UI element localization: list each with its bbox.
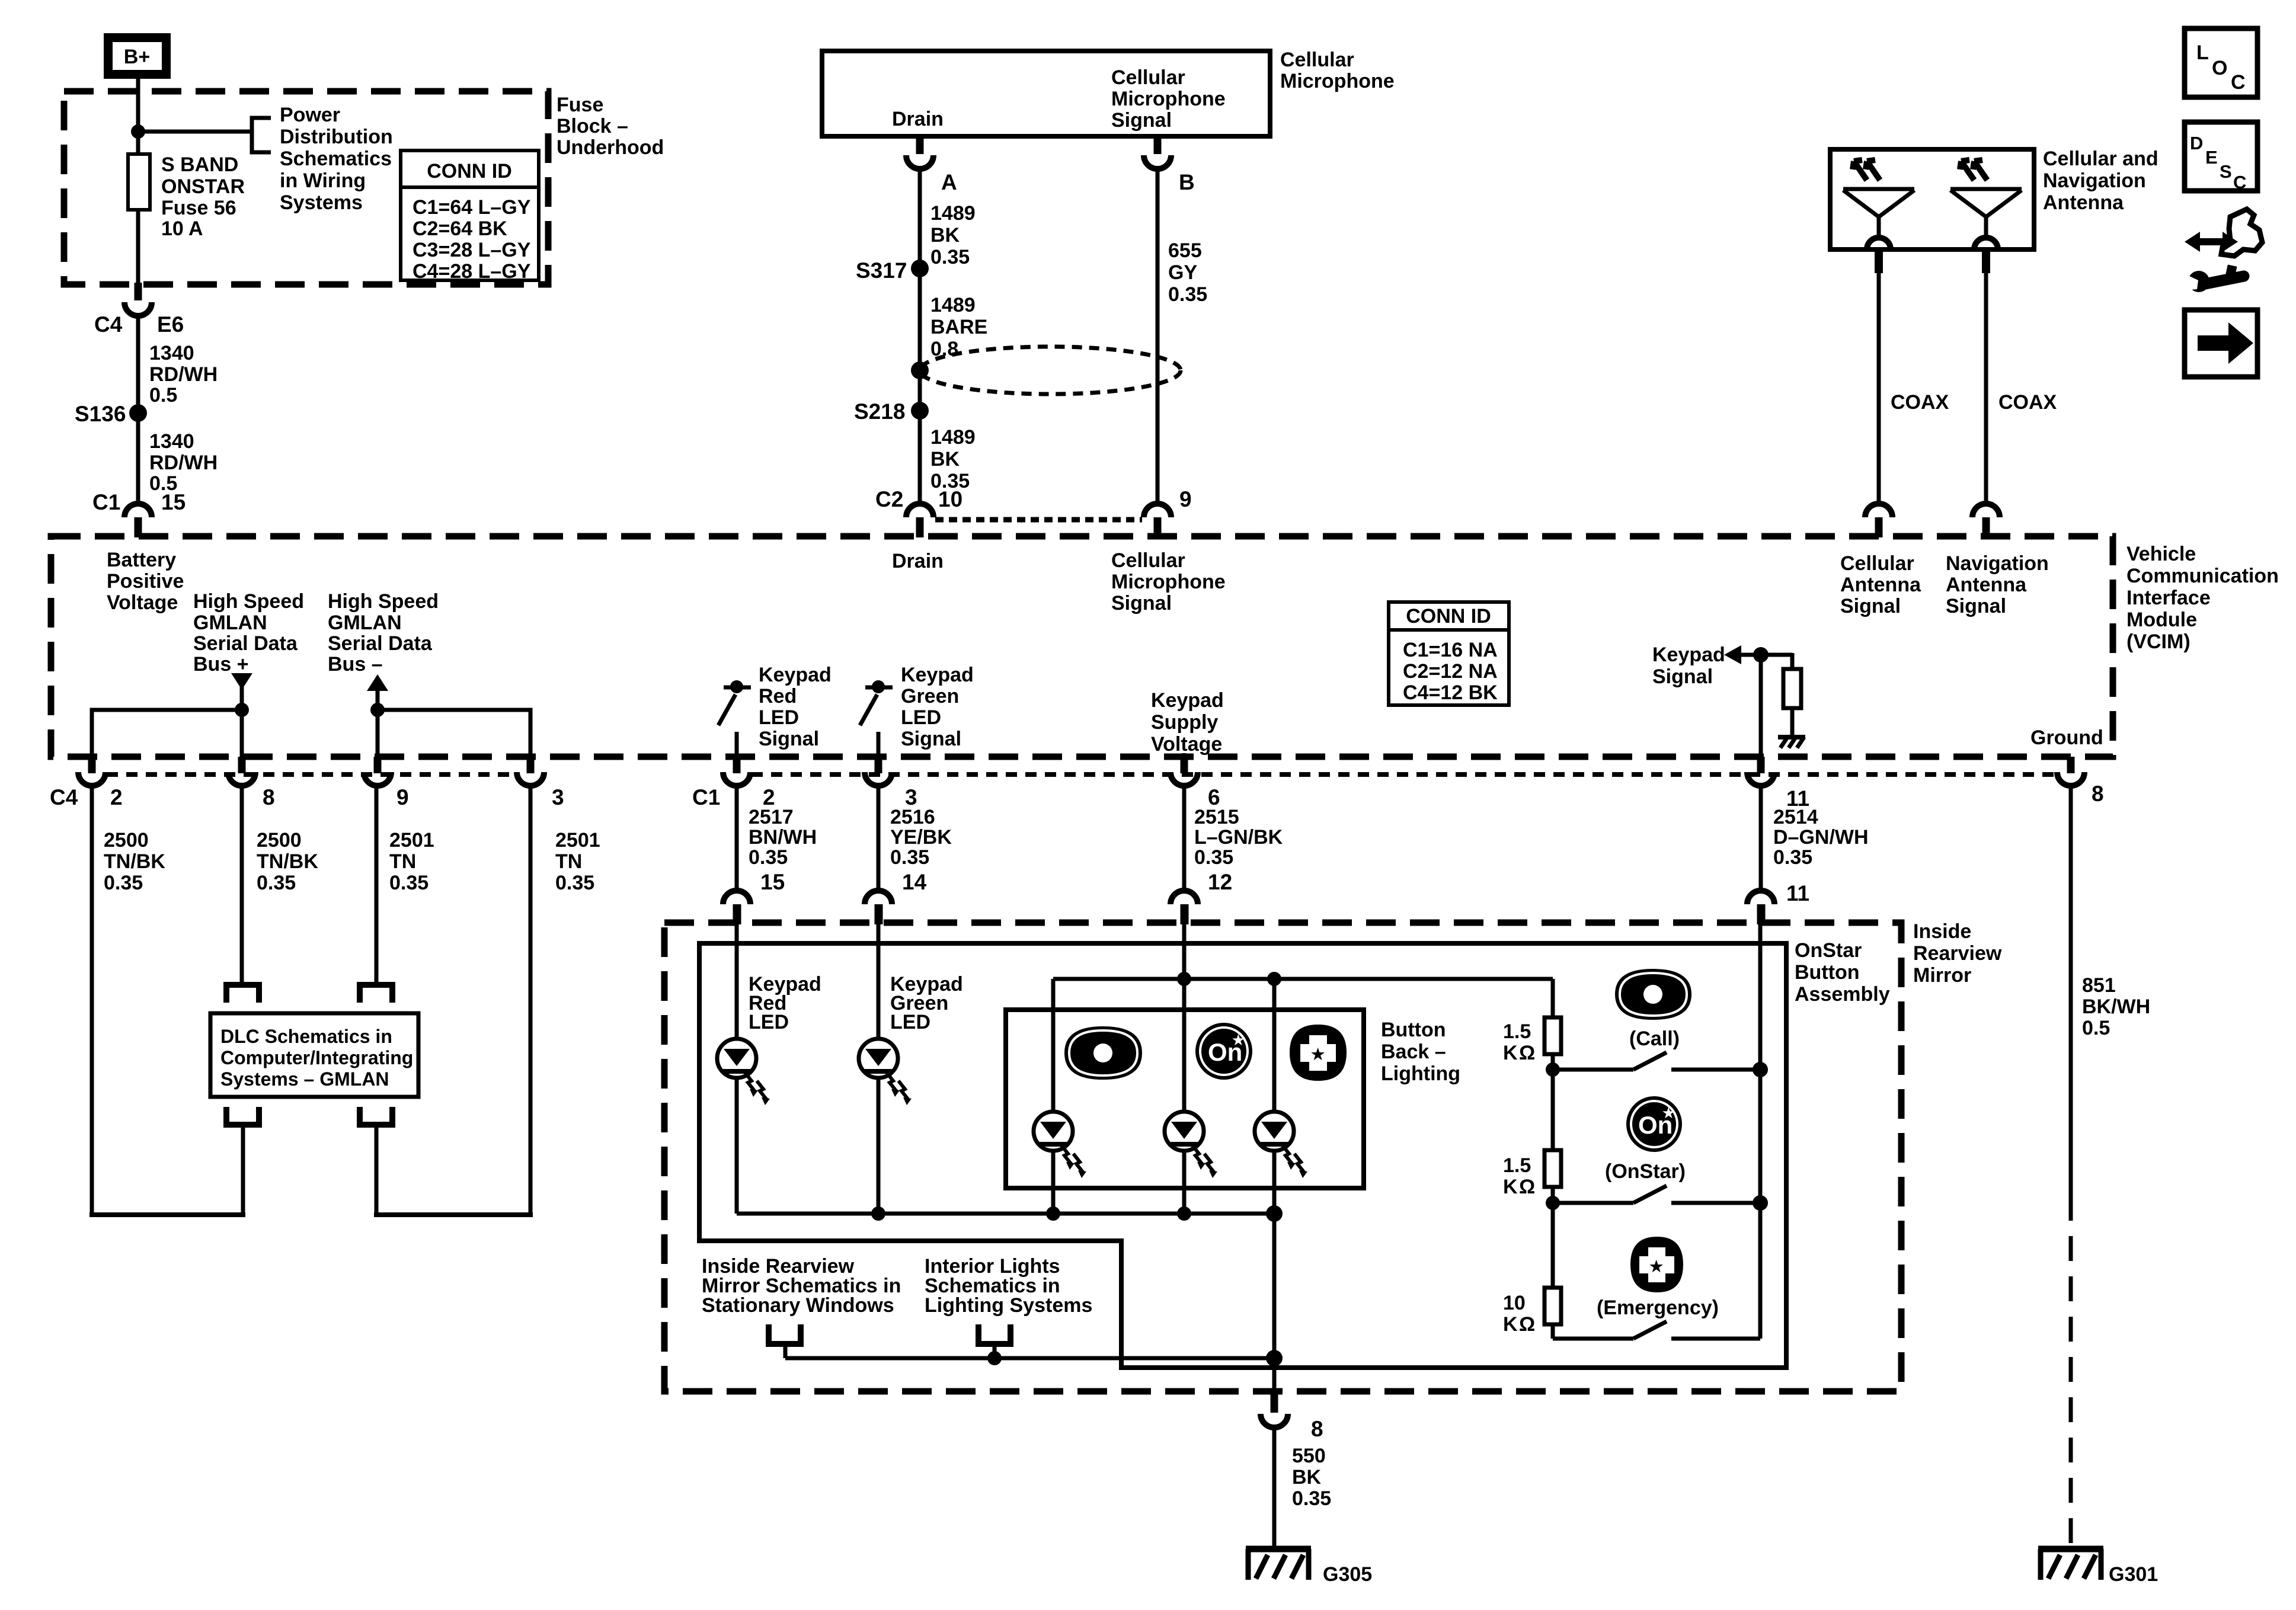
svg-text:Voltage: Voltage — [107, 591, 178, 614]
svg-text:Signal: Signal — [1946, 595, 2006, 617]
splice S218 — [911, 402, 929, 420]
svg-text:E: E — [2205, 147, 2218, 168]
svg-text:LED: LED — [890, 1011, 930, 1033]
svg-text:1.5: 1.5 — [1503, 1020, 1531, 1043]
svg-text:Serial Data: Serial Data — [193, 632, 298, 655]
svg-text:Signal: Signal — [1840, 595, 1901, 617]
svg-text:1340: 1340 — [149, 342, 194, 364]
label Inside Rearview Mirror — [1913, 920, 2002, 987]
wire resistor3 to switch3 — [1551, 1324, 1555, 1339]
wire backlight 1 — [1051, 979, 1056, 1112]
connector C1 pin 15 — [92, 490, 186, 537]
svg-text:GMLAN: GMLAN — [193, 612, 267, 634]
reference tab above DLC right — [360, 985, 392, 1003]
svg-text:0.5: 0.5 — [149, 384, 177, 406]
label S BAND ONSTAR Fuse 56 10A — [161, 153, 245, 240]
fuse F56 — [128, 154, 150, 210]
svg-text:0.35: 0.35 — [389, 872, 428, 894]
label 2516 YE/BK 0.35 — [890, 806, 952, 869]
VCIM dashed box — [51, 536, 2113, 757]
svg-text:C4=12 BK: C4=12 BK — [1403, 681, 1498, 704]
label 2501 TN 0.35 — [555, 829, 600, 894]
label Fuse Block - Underhood — [557, 94, 664, 159]
wire red LED to rail — [735, 1078, 739, 1214]
backlight supply rail — [1053, 977, 1553, 981]
svg-text:Antenna: Antenna — [2043, 191, 2124, 214]
svg-text:Supply: Supply — [1151, 711, 1218, 734]
pin cellular antenna — [1875, 249, 1883, 273]
label 2500 TN/BK 0.35 — [257, 829, 318, 894]
wire 2514 D-GN/WH — [1759, 786, 1763, 888]
svg-text:Inside: Inside — [1913, 920, 1971, 943]
label 1489 BK 0.35 — [930, 426, 976, 492]
svg-text:★: ★ — [1232, 1032, 1245, 1048]
wire resistor2 to node2 — [1551, 1187, 1555, 1288]
label Keypad Green LED — [890, 973, 963, 1033]
label 1489 BARE 0.8 — [930, 294, 987, 360]
svg-text:RD/WH: RD/WH — [149, 452, 218, 474]
svg-text:Bus +: Bus + — [193, 653, 249, 676]
svg-text:Signal: Signal — [901, 728, 961, 750]
label 2500 TN/BK 0.35 — [104, 829, 165, 894]
svg-text:0.35: 0.35 — [930, 246, 970, 268]
label Keypad Red LED — [749, 973, 821, 1033]
label DLC Schematics — [220, 1026, 413, 1090]
wire 2501 TN pin3 — [529, 786, 533, 1215]
power distribution reference tab — [252, 118, 271, 152]
arrow keypad signal (left) — [1724, 645, 1741, 664]
B+ battery feed symbol — [104, 33, 171, 79]
wire DLC left return — [241, 1126, 245, 1215]
DLC schematics box — [210, 1013, 418, 1097]
icon wrench — [2185, 265, 2244, 292]
label Button Back - Lighting — [1381, 1019, 1460, 1085]
connector C1 pin 6 — [1171, 757, 1220, 809]
svg-text:LED: LED — [901, 706, 941, 729]
svg-text:Ω: Ω — [1519, 1176, 1535, 1198]
fuse block underhood dashed box — [64, 91, 548, 284]
connector C4 pin 3 — [517, 757, 564, 809]
svg-text:E6: E6 — [157, 312, 184, 337]
svg-text:GY: GY — [1168, 261, 1197, 284]
svg-text:(VCIM): (VCIM) — [2126, 630, 2191, 653]
button back lighting box — [1006, 1010, 1364, 1188]
icon LOC box — [2185, 28, 2257, 97]
svg-text:YE/BK: YE/BK — [890, 826, 952, 849]
svg-text:1489: 1489 — [930, 426, 976, 449]
reference tab below DLC left — [226, 1107, 259, 1125]
label Cellular Antenna Signal — [1840, 552, 1921, 617]
label Navigation Antenna Signal — [1946, 552, 2049, 617]
svg-text:2517: 2517 — [749, 806, 794, 828]
svg-text:Keypad: Keypad — [1652, 644, 1725, 666]
svg-text:DLC Schematics in: DLC Schematics in — [220, 1026, 392, 1047]
svg-text:2515: 2515 — [1194, 806, 1239, 828]
svg-text:Communication: Communication — [2126, 565, 2279, 587]
resistor 1.5K call — [1544, 1017, 1561, 1054]
svg-text:0.35: 0.35 — [1773, 846, 1812, 869]
svg-text:TN/BK: TN/BK — [104, 850, 165, 873]
svg-text:0.35: 0.35 — [1168, 283, 1207, 306]
svg-text:COAX: COAX — [1998, 391, 2057, 414]
cellular and navigation antenna box — [1830, 149, 2034, 249]
svg-text:9: 9 — [1179, 487, 1192, 511]
wire bottom link left — [89, 1212, 245, 1217]
svg-text:S317: S317 — [856, 258, 907, 283]
dotted connector line C4 — [107, 772, 516, 777]
svg-text:C: C — [2233, 172, 2246, 193]
svg-text:TN: TN — [555, 850, 582, 873]
wire keypad signal horizontal — [1740, 653, 1792, 657]
node backlight2 rail — [1177, 1206, 1191, 1221]
svg-text:Keypad: Keypad — [759, 664, 832, 686]
svg-text:Bus –: Bus – — [328, 653, 383, 676]
icon DESC box — [2185, 122, 2257, 193]
svg-text:11: 11 — [1786, 881, 1809, 905]
wire 2516 YE/BK — [877, 786, 881, 888]
wire keypad supply into assembly — [1182, 922, 1187, 1112]
svg-text:1.5: 1.5 — [1503, 1154, 1531, 1177]
inside rearview mirror dashed box — [664, 923, 1901, 1391]
svg-text:Underhood: Underhood — [557, 136, 664, 159]
svg-text:14: 14 — [902, 870, 927, 894]
svg-text:Systems – GMLAN: Systems – GMLAN — [220, 1068, 389, 1090]
node supply to rail — [1177, 972, 1191, 986]
svg-text:K: K — [1503, 1313, 1518, 1336]
svg-text:Cellular: Cellular — [1111, 549, 1185, 572]
switch keypad red LED signal driver — [718, 680, 751, 757]
wire 1489 BK drain upper — [918, 169, 922, 264]
svg-text:C4=28 L–GY: C4=28 L–GY — [412, 260, 531, 283]
svg-text:Cellular: Cellular — [1840, 552, 1914, 575]
svg-text:BK: BK — [930, 448, 960, 470]
svg-text:★: ★ — [1311, 1045, 1325, 1063]
node switch onstar — [1546, 1196, 1560, 1210]
svg-text:COAX: COAX — [1891, 391, 1949, 414]
svg-text:B: B — [1179, 170, 1195, 194]
svg-text:Signal: Signal — [759, 728, 819, 750]
svg-text:Lighting Systems: Lighting Systems — [925, 1294, 1092, 1317]
svg-text:C1=16 NA: C1=16 NA — [1403, 639, 1498, 661]
svg-text:Fuse: Fuse — [557, 94, 603, 116]
node shield junction — [911, 361, 929, 379]
svg-text:L: L — [2196, 41, 2209, 64]
svg-text:0.5: 0.5 — [2082, 1017, 2110, 1039]
svg-text:in Wiring: in Wiring — [280, 169, 366, 192]
svg-text:Vehicle: Vehicle — [2126, 543, 2196, 565]
svg-text:Block –: Block – — [557, 115, 628, 137]
label Battery Positive Voltage — [107, 549, 184, 614]
svg-text:BK: BK — [930, 224, 960, 247]
splice S317 — [911, 260, 929, 277]
label 2515 L-GN/BK 0.35 — [1194, 806, 1283, 869]
LED backlight 2 — [1165, 1112, 1217, 1178]
svg-text:LED: LED — [749, 1011, 789, 1033]
svg-text:Keypad: Keypad — [1151, 689, 1224, 712]
connector mirror pin 15 — [723, 870, 785, 924]
icon onstar backlight — [1195, 1023, 1252, 1080]
wire 2515 L-GN/BK — [1182, 786, 1187, 888]
connector C1 pin 8 ground — [2057, 757, 2104, 806]
svg-text:2500: 2500 — [257, 829, 302, 852]
wire COAX cellular — [1877, 273, 1881, 504]
svg-text:A: A — [941, 170, 957, 194]
svg-text:S136: S136 — [75, 402, 126, 426]
node backlight3 rail — [1266, 1205, 1283, 1222]
node backlight1 rail — [1046, 1206, 1060, 1221]
svg-text:2500: 2500 — [104, 829, 149, 852]
label Keypad Red LED Signal — [759, 664, 832, 750]
svg-text:OnStar: OnStar — [1795, 939, 1862, 962]
svg-text:Signal: Signal — [1111, 592, 1172, 614]
pin navigation antenna — [1982, 249, 1990, 273]
svg-text:Positive: Positive — [107, 570, 184, 593]
svg-text:Computer/Integrating: Computer/Integrating — [220, 1047, 413, 1068]
svg-text:BARE: BARE — [930, 316, 987, 338]
label 550 BK 0.35 — [1292, 1445, 1331, 1510]
svg-text:Keypad: Keypad — [901, 664, 974, 686]
svg-text:655: 655 — [1168, 239, 1202, 262]
arrow GMLAN bus + (down) — [231, 673, 252, 690]
wire rail to resistor chain — [1551, 979, 1555, 1017]
svg-text:Drain: Drain — [892, 108, 944, 130]
svg-text:2501: 2501 — [389, 829, 434, 852]
svg-text:1489: 1489 — [930, 294, 976, 316]
connector C2 pin 10 — [875, 487, 962, 537]
connector mirror pin 12 — [1171, 870, 1232, 924]
label 655 GY 0.35 — [1168, 239, 1207, 306]
svg-text:Mirror: Mirror — [1913, 964, 1971, 987]
wire DLC right return — [375, 1126, 379, 1215]
wire 1489 BK drain lower — [918, 411, 922, 504]
svg-text:RD/WH: RD/WH — [149, 363, 218, 386]
reference tab above DLC left — [226, 985, 259, 1003]
svg-text:BK/WH: BK/WH — [2082, 996, 2150, 1018]
node interior lights junction — [987, 1351, 1002, 1365]
svg-text:C1=64 L–GY: C1=64 L–GY — [412, 196, 531, 219]
svg-text:B+: B+ — [124, 46, 150, 68]
svg-text:2516: 2516 — [890, 806, 935, 828]
svg-text:3: 3 — [552, 785, 564, 809]
wire bus+ stem — [240, 686, 244, 757]
wire backlight 3 — [1272, 979, 1277, 1112]
svg-text:Serial Data: Serial Data — [328, 632, 433, 655]
antenna navigation symbol — [1950, 160, 2022, 249]
wire tab2 to combiner — [993, 1344, 997, 1358]
svg-text:15: 15 — [760, 870, 785, 894]
label High Speed GMLAN Serial Data Bus - — [328, 590, 439, 676]
svg-text:G301: G301 — [2109, 1563, 2158, 1586]
switch keypad green LED signal driver — [860, 680, 893, 757]
label Cellular Microphone Signal below VCIM edge — [1111, 549, 1226, 614]
svg-text:550: 550 — [1292, 1445, 1326, 1467]
svg-text:Drain: Drain — [892, 550, 944, 572]
connector C4 pin 9 — [364, 757, 409, 809]
svg-text:Antenna: Antenna — [1840, 574, 1921, 596]
svg-text:Power: Power — [280, 104, 340, 126]
reference tab interior lights schematics — [978, 1324, 1011, 1344]
svg-text:9: 9 — [396, 785, 409, 809]
svg-text:D: D — [2190, 133, 2203, 153]
svg-text:L–GN/BK: L–GN/BK — [1194, 826, 1283, 849]
svg-text:10 A: 10 A — [161, 217, 203, 240]
svg-text:Systems: Systems — [280, 191, 363, 214]
label Cellular Microphone (right of box) — [1280, 49, 1395, 92]
label 2514 D-GN/WH 0.35 — [1773, 806, 1869, 869]
svg-text:Voltage: Voltage — [1151, 733, 1222, 756]
LED backlight 1 — [1034, 1112, 1086, 1178]
svg-text:Navigation: Navigation — [2043, 169, 2146, 192]
ground G301 — [2038, 1549, 2103, 1580]
svg-text:Schematics: Schematics — [280, 148, 392, 170]
LED keypad green — [859, 1039, 912, 1105]
resistor keypad signal pullup — [1783, 669, 1801, 708]
wire to power distribution tab — [138, 130, 252, 134]
label Keypad Signal — [1652, 644, 1725, 688]
antenna cellular symbol — [1843, 160, 1914, 249]
label 1340 RD/WH 0.5 — [149, 430, 218, 495]
wire 2500 TN/BK pin2 — [90, 786, 94, 1215]
svg-text:2: 2 — [110, 785, 123, 809]
connector mirror pin 8 — [1261, 1394, 1323, 1441]
wire 851 BK/WH solid — [2069, 788, 2073, 1196]
node rail to backlight 3 — [1267, 972, 1281, 986]
svg-text:High Speed: High Speed — [328, 590, 439, 613]
svg-text:C1: C1 — [692, 785, 720, 809]
svg-text:Microphone: Microphone — [1111, 571, 1226, 593]
svg-text:Microphone: Microphone — [1111, 88, 1226, 110]
svg-text:Cellular and: Cellular and — [2043, 148, 2159, 170]
svg-text:D–GN/WH: D–GN/WH — [1773, 826, 1869, 849]
svg-text:2514: 2514 — [1773, 806, 1818, 828]
svg-text:Distribution: Distribution — [280, 126, 393, 148]
wire keypad signal common — [1758, 922, 1763, 1339]
node onstar to common — [1753, 1195, 1768, 1211]
wire 2501 TN pin9 — [375, 786, 379, 982]
node junction in fuse block — [131, 124, 145, 139]
svg-text:(OnStar): (OnStar) — [1605, 1160, 1686, 1183]
svg-text:C4: C4 — [50, 785, 78, 809]
svg-text:K: K — [1503, 1042, 1518, 1064]
wire keypad red LED feed — [735, 922, 739, 1039]
twisted pair shield ellipse — [920, 347, 1181, 394]
svg-text:C2=64 BK: C2=64 BK — [412, 217, 507, 240]
dotted connector line C1 — [752, 772, 2056, 777]
wire 655 GY mic signal — [1156, 169, 1160, 504]
CONN ID table VCIM — [1389, 602, 1509, 705]
wire 851 BK/WH dashed run — [2069, 1196, 2073, 1548]
connector cellular antenna signal — [1865, 504, 1892, 537]
svg-text:C1: C1 — [92, 490, 120, 514]
svg-text:15: 15 — [161, 490, 186, 514]
svg-text:0.35: 0.35 — [257, 872, 296, 894]
svg-text:2501: 2501 — [555, 829, 600, 852]
svg-text:Antenna: Antenna — [1946, 574, 2027, 596]
connector C2 pin 9 — [1144, 487, 1192, 537]
svg-text:Cellular: Cellular — [1280, 49, 1354, 71]
wire 2517 BN/WH — [735, 786, 739, 888]
icon call backlight — [1064, 1026, 1142, 1080]
svg-text:Cellular: Cellular — [1111, 66, 1185, 89]
wire bottom link right — [374, 1212, 533, 1217]
svg-text:Navigation: Navigation — [1946, 552, 2049, 575]
svg-text:0.35: 0.35 — [1292, 1487, 1331, 1510]
resistor 10K emergency — [1544, 1288, 1561, 1324]
svg-text:K: K — [1503, 1176, 1518, 1198]
svg-text:C2: C2 — [875, 487, 903, 511]
LED backlight 3 — [1255, 1112, 1307, 1178]
CONN ID table fuse block — [401, 151, 539, 283]
reference tab inside rearview mirror schematics — [769, 1324, 801, 1344]
svg-text:C4: C4 — [94, 312, 123, 337]
svg-text:Signal: Signal — [1652, 665, 1713, 688]
svg-text:Battery: Battery — [107, 549, 176, 571]
label Power Distribution Schematics — [280, 104, 393, 214]
wire green LED to rail — [877, 1078, 881, 1214]
wire fuse to connector C4 — [136, 210, 140, 283]
svg-text:10: 10 — [1503, 1292, 1526, 1314]
wire B+ to fuse — [136, 79, 140, 154]
svg-text:Assembly: Assembly — [1795, 983, 1890, 1006]
svg-text:C3=28 L–GY: C3=28 L–GY — [412, 239, 531, 261]
icon arrow box — [2185, 310, 2257, 377]
wire combiner to ground lead — [785, 1356, 1274, 1361]
wire 1340 RD/WH lower — [136, 413, 140, 504]
svg-text:Back –: Back – — [1381, 1041, 1446, 1063]
svg-text:O: O — [2212, 57, 2227, 79]
svg-text:CONN ID: CONN ID — [427, 160, 512, 183]
svg-text:C2=12 NA: C2=12 NA — [1403, 660, 1498, 683]
ground G305 — [1246, 1549, 1311, 1580]
node bus- junction — [370, 703, 385, 717]
switch emergency — [1553, 1321, 1760, 1339]
connector C1 pin 2 — [692, 757, 775, 809]
svg-text:Ω: Ω — [1519, 1313, 1535, 1336]
switch onstar — [1553, 1186, 1760, 1203]
label 1.5 KOhm — [1503, 1154, 1535, 1198]
wire keypad green LED feed — [877, 922, 881, 1039]
connector navigation antenna signal — [1972, 504, 2000, 537]
connector pin A — [906, 136, 957, 194]
connector mirror pin 14 — [865, 870, 927, 924]
svg-text:10: 10 — [938, 487, 962, 511]
label Inside Rearview Mirror Schematics in Stationary Windows — [702, 1255, 901, 1317]
label 851 BK/WH 0.5 — [2082, 974, 2150, 1039]
connector C4 pin 8 — [228, 757, 275, 809]
wire 1489 BARE drain — [918, 268, 922, 406]
LED keypad red — [717, 1039, 770, 1105]
svg-text:Lighting: Lighting — [1381, 1062, 1460, 1085]
icon call button — [1615, 969, 1691, 1020]
svg-text:GMLAN: GMLAN — [328, 612, 402, 634]
svg-text:Module: Module — [2126, 609, 2197, 631]
ground internal VCIM — [1778, 737, 1805, 748]
label Vehicle Communication Interface Module (VCIM) — [2126, 543, 2279, 653]
connector C1 pin 11 — [1747, 757, 1809, 811]
svg-text:0.35: 0.35 — [1194, 846, 1233, 869]
wire keypad supply stub — [1182, 753, 1187, 758]
svg-text:8: 8 — [263, 785, 275, 809]
icon onstar button — [1626, 1096, 1682, 1152]
node switch call — [1546, 1062, 1560, 1077]
LED cathode rail — [737, 1212, 1274, 1216]
svg-text:LED: LED — [759, 706, 799, 729]
node keypad signal junction — [1753, 647, 1769, 662]
svg-text:Button: Button — [1381, 1019, 1446, 1041]
connector C4 pin 2 — [50, 757, 123, 809]
connector mirror pin 11 — [1747, 881, 1809, 924]
svg-text:TN/BK: TN/BK — [257, 850, 318, 873]
